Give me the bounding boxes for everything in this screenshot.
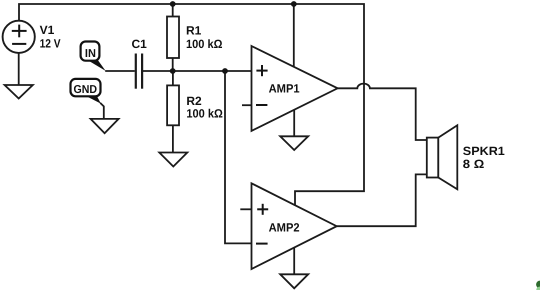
svg-text:8 Ω: 8 Ω	[463, 157, 485, 171]
svg-text:100 kΩ: 100 kΩ	[186, 37, 223, 51]
svg-text:100 kΩ: 100 kΩ	[186, 107, 223, 121]
svg-text:GND: GND	[74, 84, 98, 96]
svg-text:SPKR1: SPKR1	[463, 144, 505, 158]
svg-text:V1: V1	[40, 23, 55, 37]
svg-text:R1: R1	[186, 24, 202, 38]
svg-text:AMP2: AMP2	[269, 221, 300, 235]
svg-text:IN: IN	[85, 48, 96, 60]
svg-text:12 V: 12 V	[40, 37, 61, 51]
svg-text:C1: C1	[132, 37, 148, 51]
svg-text:AMP1: AMP1	[269, 82, 300, 96]
